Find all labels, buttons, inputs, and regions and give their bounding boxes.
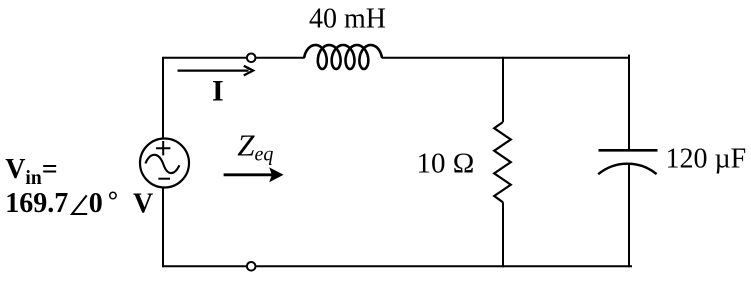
angle symbol	[72, 195, 87, 214]
current arrow I head	[244, 66, 253, 76]
terminal node (top, open circle)	[247, 54, 256, 63]
wire resistor bottom lead	[502, 202, 504, 267]
svg-text:Zeq: Zeq	[237, 127, 273, 165]
wire resistor top lead	[502, 57, 504, 122]
wire bottom horizontal	[256, 265, 632, 267]
resistor R1 zigzag	[494, 122, 511, 202]
svg-text:169.7: 169.7	[5, 188, 68, 219]
capacitor C1 top plate	[599, 149, 658, 152]
source plus sign	[156, 141, 170, 155]
svg-text:0: 0	[89, 188, 103, 219]
svg-text:40 mH: 40 mH	[309, 4, 386, 35]
impedance arrow Zeq shaft	[224, 173, 272, 176]
wire right vertical top (capacitor top lead)	[628, 55, 630, 151]
wire top-left horizontal	[163, 57, 247, 59]
svg-text:10 Ω: 10 Ω	[417, 148, 475, 180]
svg-text:120 µF: 120 µF	[666, 144, 747, 175]
wire left vertical (source top lead)	[162, 57, 164, 139]
source sine wave	[145, 155, 179, 173]
current arrow I shaft	[178, 69, 249, 71]
wire bottom-left horizontal	[163, 265, 247, 267]
inductor L1 40 mH (coil)	[304, 45, 382, 69]
svg-text:°: °	[108, 186, 118, 215]
terminal node (bottom, open circle)	[247, 262, 256, 271]
svg-text:V: V	[133, 188, 153, 219]
capacitor C1 bottom plate (curved)	[598, 164, 656, 175]
wire left vertical (source bottom lead)	[162, 187, 164, 267]
svg-text:Vin=: Vin=	[5, 154, 57, 189]
svg-text:I: I	[212, 75, 224, 108]
voltage source V1 (AC) circle	[140, 139, 189, 188]
wire top-right horizontal	[382, 57, 629, 59]
wire top between terminal and inductor	[256, 57, 305, 59]
source minus sign	[158, 178, 170, 180]
wire right vertical bottom (capacitor bottom lead)	[628, 165, 630, 267]
impedance arrow Zeq head	[269, 167, 283, 182]
